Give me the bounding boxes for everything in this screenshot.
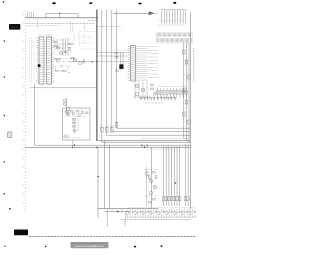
resistor R205 [71,57,74,59]
pin stubs IC101 [128,47,138,81]
svg-text:KEH-P4: KEH-P4 [11,27,19,29]
inline resistors on bus lines [99,122,118,132]
wire rail bus turn [97,140,190,142]
scatter text top-center [78,32,95,50]
transistor Q203 [56,59,59,62]
wire IC201 down [34,84,36,145]
resistor R207 [63,100,66,102]
transistor Q201 [56,46,59,49]
ground rail [120,220,190,226]
wire rail dashed [140,138,190,140]
net labels IC101 right [138,47,159,81]
wire under IC201 [30,87,97,89]
footer text line [29,236,196,238]
diode D301 [146,167,148,206]
resistor R304 [152,199,155,201]
microcontroller IC101 [131,46,135,82]
transistor Q206 [63,102,66,105]
capacitor C202 [64,51,67,52]
label plate [9,24,20,30]
wire bottom rail [98,208,158,210]
wire riser stubs [27,12,33,18]
resistor R303 [156,176,158,179]
wire branch lines [54,38,68,56]
resistor R203 [69,43,72,45]
wire rail 3 [35,145,191,146]
footer bar [14,230,28,236]
label IC201 [39,34,52,36]
wire rail 4 [25,147,190,148]
resistor R208 [66,113,69,115]
parts inside power unit [63,111,88,148]
junction taps on rails [141,145,175,150]
wire box inner edge [109,145,111,208]
wire right bus 2 [185,43,187,142]
wire main bus [96,10,98,141]
wire Q206 branch [66,98,68,113]
net label row A [26,24,94,26]
net label row B [88,20,122,26]
connector CN201 [158,9,186,25]
node bracket [46,13,78,18]
net label row C [145,102,163,104]
transistor Q103 [135,92,139,96]
resistor R201 [54,41,57,43]
pin stubs IC201 [36,38,54,83]
connector CN201 labels [157,33,193,43]
wire lower rail [105,211,130,221]
labels bottom-right [144,170,158,197]
wire left drop [97,147,98,218]
crystal X101 [114,50,127,72]
page side label [193,48,195,82]
transistor Q302 [153,185,156,188]
wire top rail [25,17,98,19]
transistor Q102 [141,88,145,92]
resistor R302 [149,176,151,179]
svg-text:www.manualslib.com: www.manualslib.com [75,244,104,248]
component row top-right [140,95,176,100]
transistor Q204 [73,58,76,61]
wire bus lines [102,10,191,142]
transistor Q301 [149,179,152,182]
capacitor C201 [38,64,41,67]
transistor Q303 [149,191,152,194]
resistor R202 [54,45,57,47]
transistor Q202 [59,51,62,54]
op-amp IC201 [39,37,52,84]
resistor R305 [149,202,152,204]
wire box right edge [151,147,153,208]
wire box left edge [104,141,106,209]
wire to main bus [68,61,98,62]
vertical label columns [38,19,85,46]
capacitor row C110 [140,97,176,101]
output component row [107,207,196,227]
resistor R206 [83,60,85,63]
small parts group A [54,58,74,72]
wire right bus 1 [183,43,185,139]
wires below IC101 [133,81,156,99]
wire rail to connector [113,11,158,15]
wire drops to output row [162,144,189,206]
resistor R301 [152,172,155,174]
wire right bus 3 [188,43,190,144]
resistor array R110 [156,87,188,99]
wires bus to IC101 [97,53,128,62]
transistor Q207 [66,107,69,110]
transistor Q205 [78,61,81,64]
pin number columns IC201 [29,38,34,83]
resistor R204 [69,47,71,50]
transistor Q101 [135,84,139,88]
watermark badge [71,242,109,248]
power unit block [63,108,91,140]
